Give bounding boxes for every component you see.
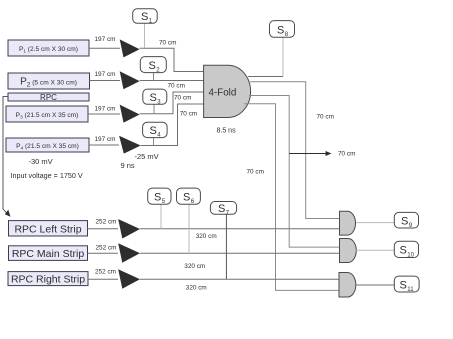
discriminator D2 (triangle) [120, 71, 140, 89]
svg-text:S: S [149, 60, 156, 72]
wire RPC Main Strip to discriminator D6, 252 cm [88, 252, 118, 254]
wire D2 output to 4-Fold input 2, 70 cm [140, 80, 204, 82]
svg-text:70 cm: 70 cm [174, 94, 191, 101]
RPC detector box [8, 93, 89, 102]
wire C3 output to S11 [356, 284, 395, 286]
scaler S8 [270, 21, 295, 77]
scintillator paddle P1 [8, 40, 89, 56]
svg-text:P3 (21.5 cm X 35 cm): P3 (21.5 cm X 35 cm) [16, 112, 79, 120]
svg-text:197 cm: 197 cm [95, 106, 116, 113]
wire RPC to strips (arrow) [3, 97, 11, 217]
scintillator paddle P3 [6, 106, 88, 122]
scaler S5 [148, 188, 171, 229]
discriminator D5 (triangle) [118, 219, 140, 238]
svg-text:197 cm: 197 cm [95, 136, 116, 143]
4-Fold coincidence unit [204, 65, 251, 117]
discriminator D1 (triangle) [120, 39, 140, 57]
svg-text:320 cm: 320 cm [186, 285, 207, 292]
svg-text:P1 (2.5 cm X 30 cm): P1 (2.5 cm X 30 cm) [19, 46, 78, 54]
svg-text:252 cm: 252 cm [96, 218, 117, 225]
svg-text:S: S [183, 192, 190, 204]
svg-text:RPC Left Strip: RPC Left Strip [14, 223, 81, 235]
scintillator paddle P2 [8, 73, 90, 89]
scaler S9 [394, 212, 418, 229]
wire 4-Fold output to coincidence gate C2 [249, 96, 340, 248]
svg-text:197 cm: 197 cm [95, 36, 116, 43]
scaler S10 [394, 241, 418, 258]
svg-text:4-Fold: 4-Fold [209, 88, 237, 99]
scaler S4 [143, 122, 168, 145]
RPC Right Strip box [8, 272, 88, 286]
scaler S11 [394, 276, 419, 293]
wire C1 output to S9 [356, 222, 394, 224]
scaler S3 [143, 89, 167, 114]
wire C2 output to S10 [356, 249, 394, 251]
svg-text:S: S [141, 11, 148, 23]
svg-text:RPC Right Strip: RPC Right Strip [11, 274, 85, 286]
wire D5 output to gate C1, 320 cm [140, 228, 340, 230]
wire D1 output to 4-Fold input 1, 70 cm [140, 48, 204, 71]
coincidence gate C3 (2-fold AND) [339, 273, 356, 298]
wire 4-Fold output to S8 [248, 76, 283, 78]
svg-text:70 cm: 70 cm [317, 114, 334, 121]
wire P3 to discriminator D3, 197 cm [88, 113, 120, 115]
svg-text:8.5 ns: 8.5 ns [217, 128, 237, 135]
svg-text:-30 mV: -30 mV [29, 157, 53, 166]
svg-text:252 cm: 252 cm [95, 269, 116, 276]
svg-text:320 cm: 320 cm [196, 233, 217, 240]
svg-text:-25 mV: -25 mV [135, 152, 159, 161]
scaler S6 [177, 188, 201, 253]
wire 4-Fold output to coincidence gate C3 [244, 104, 339, 291]
svg-text:252 cm: 252 cm [96, 244, 117, 251]
svg-text:S: S [218, 203, 225, 215]
svg-text:RPC Main Strip: RPC Main Strip [12, 248, 85, 260]
wire D7 output to gate C3, 320 cm [140, 278, 339, 280]
svg-text:S: S [150, 92, 157, 104]
svg-text:70 cm: 70 cm [247, 169, 264, 176]
svg-text:S: S [154, 192, 161, 204]
svg-text:10: 10 [407, 252, 414, 258]
discriminator D4 (triangle) [119, 136, 141, 154]
svg-text:P4 (21.5 cm X 35 cm): P4 (21.5 cm X 35 cm) [16, 143, 79, 151]
svg-text:RPC: RPC [40, 93, 57, 102]
wire P4 to discriminator D4, 197 cm [89, 144, 119, 146]
wire P1 to discriminator D1, 197 cm [89, 47, 120, 49]
coincidence gate C2 (2-fold AND) [340, 239, 357, 263]
wire RPC Left Strip to discriminator D5, 252 cm [88, 228, 118, 230]
svg-text:9 ns: 9 ns [121, 161, 135, 170]
svg-text:S: S [400, 279, 407, 291]
scintillator paddle P4 [6, 138, 89, 152]
wire D3 output to 4-Fold input 3, 70 cm [140, 92, 204, 114]
discriminator D6 (triangle) [118, 243, 140, 262]
svg-text:70 cm: 70 cm [180, 111, 197, 118]
wire D6 output to gate C2, 320 cm [140, 252, 340, 254]
svg-text:70 cm: 70 cm [159, 39, 176, 46]
scaler S7 [210, 202, 236, 280]
wire RPC Right Strip to discriminator D7, 252 cm [88, 278, 118, 280]
svg-text:197 cm: 197 cm [95, 71, 116, 78]
discriminator D7 (triangle) [118, 269, 140, 288]
wire P2 to discriminator D2, 197 cm [90, 80, 121, 82]
wire branch arrow output, 70 cm [289, 151, 355, 158]
RPC Left Strip box [9, 221, 88, 236]
svg-text:S: S [401, 215, 408, 227]
scaler S2 [140, 57, 166, 81]
svg-text:Input voltage = 1750 V: Input voltage = 1750 V [11, 171, 83, 180]
wire D4 output to 4-Fold input 4, 70 cm [141, 104, 204, 146]
svg-text:11: 11 [407, 287, 414, 293]
discriminator D3 (triangle) [120, 105, 140, 123]
svg-text:320 cm: 320 cm [184, 263, 205, 270]
svg-text:70 cm: 70 cm [338, 151, 355, 158]
svg-text:S: S [150, 125, 157, 137]
wire 4-Fold output to coincidence gate C1 [250, 82, 340, 219]
svg-text:S: S [277, 24, 284, 36]
scaler S1 [133, 9, 158, 48]
RPC Main Strip box [9, 246, 88, 261]
svg-text:70 cm: 70 cm [168, 82, 185, 89]
svg-text:S: S [400, 245, 407, 257]
coincidence gate C1 (2-fold AND) [340, 211, 356, 235]
